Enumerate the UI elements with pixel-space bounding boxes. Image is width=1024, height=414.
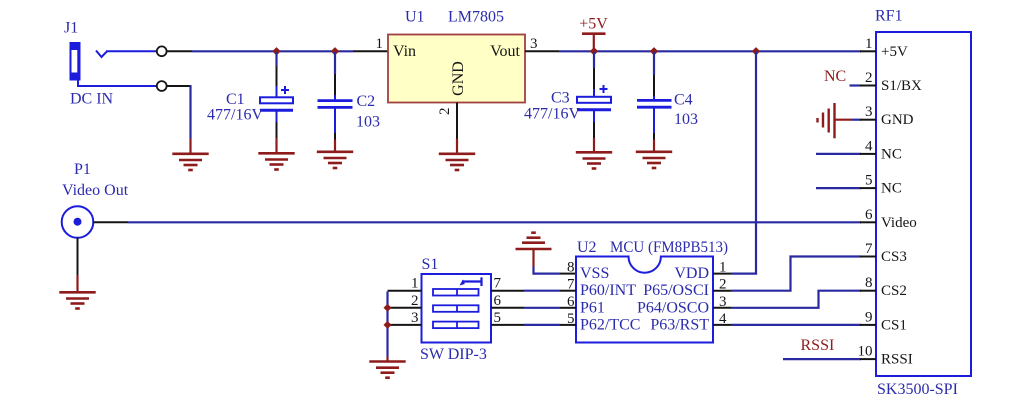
svg-text:C2: C2	[357, 93, 376, 110]
capacitor C4 bottom lead	[653, 108, 655, 133]
wire at RF1 pin 3	[852, 119, 861, 121]
wire: +5V rail	[559, 50, 861, 52]
svg-text:GND: GND	[881, 112, 914, 128]
S1 switch element 1	[433, 289, 479, 296]
svg-text:CS2: CS2	[881, 283, 907, 299]
capacitor C2 top plate	[318, 99, 353, 102]
P1 signal pin stub	[93, 221, 128, 223]
capacitor C3 plus sign	[600, 85, 608, 93]
capacitor C3 negative plate	[577, 108, 611, 111]
svg-text:1: 1	[411, 276, 419, 292]
svg-text:P61: P61	[580, 299, 605, 316]
S1 pin 6 stub	[491, 307, 524, 309]
capacitor C1 bottom lead	[276, 112, 278, 123]
capacitor C1 plus sign	[281, 86, 289, 94]
U2 pin 5 stub	[560, 324, 576, 326]
ground (J1)	[172, 154, 208, 170]
svg-text:6: 6	[494, 293, 502, 309]
svg-text:6: 6	[865, 207, 873, 223]
svg-text:8: 8	[567, 260, 575, 276]
svg-text:Video Out: Video Out	[62, 182, 129, 199]
wire C3 to rail	[593, 52, 595, 68]
capacitor C2 bottom lead	[334, 109, 336, 134]
capacitor C4 bottom plate	[637, 106, 672, 109]
ground (U1)	[439, 154, 475, 170]
ground lead (C2)	[334, 140, 336, 153]
svg-text:S1: S1	[422, 256, 439, 273]
svg-text:P64/OSCO: P64/OSCO	[637, 299, 709, 316]
RF1 pin 9 stub	[860, 324, 876, 326]
U2 pin 7 stub	[560, 290, 576, 292]
capacitor C1 pin 1	[276, 66, 278, 86]
capacitor C3 pin 1	[593, 68, 595, 89]
wire C2 to rail	[334, 52, 336, 74]
capacitor C1 pin 2	[276, 122, 278, 138]
capacitor C2 top lead	[334, 95, 336, 100]
RF1 pin 2 stub	[860, 85, 876, 87]
svg-text:LM7805: LM7805	[448, 9, 504, 26]
svg-text:10: 10	[858, 344, 873, 360]
connector J1 (DC power jack body)	[70, 42, 81, 81]
connector P1 center pin	[74, 218, 82, 226]
S1 pin 2 stub	[388, 307, 422, 309]
svg-text:J1: J1	[64, 20, 78, 37]
svg-text:477/16V: 477/16V	[207, 106, 263, 123]
P1 ground pin stub	[77, 238, 79, 275]
svg-text:1: 1	[376, 36, 384, 52]
wire: Video net	[128, 221, 861, 223]
svg-text:RSSI: RSSI	[881, 352, 913, 368]
wire VDD to +5V rail	[731, 51, 756, 273]
S1 pin 5 stub	[491, 324, 524, 326]
ground (S1)	[369, 362, 405, 378]
RF1 pin 4 stub	[860, 153, 876, 155]
ground (C3)	[576, 152, 612, 168]
J1 bottom pin pad (open circle)	[157, 81, 167, 91]
svg-text:+5V: +5V	[881, 44, 908, 60]
svg-text:103: 103	[674, 111, 698, 128]
U2 pin 1 stub	[713, 273, 731, 275]
ground (RF1 GND pin, rotated)	[818, 103, 835, 138]
svg-text:3: 3	[865, 104, 873, 120]
ground (U2 VSS, inverted)	[516, 233, 552, 249]
ground lead (U2 VSS)	[532, 249, 534, 267]
svg-text:RF1: RF1	[875, 8, 903, 25]
capacitor C3 positive plate	[577, 97, 611, 103]
wire S1 pin6 to U2	[524, 307, 560, 309]
svg-text:P60/INT: P60/INT	[580, 282, 636, 299]
capacitor C4 top plate	[637, 99, 672, 102]
capacitor C4 pin 2	[653, 133, 655, 140]
svg-text:RSSI: RSSI	[801, 337, 835, 354]
svg-text:103: 103	[356, 114, 380, 131]
svg-text:VSS: VSS	[580, 265, 609, 282]
svg-text:5: 5	[494, 310, 502, 326]
svg-text:1: 1	[865, 36, 873, 52]
wire C4 to rail	[653, 52, 655, 75]
U2 pin 3 stub	[713, 307, 731, 309]
svg-text:Vin: Vin	[393, 43, 416, 60]
pin stub U1 pin 1	[353, 50, 389, 52]
svg-text:GND: GND	[450, 61, 467, 96]
ground lead (RF1 GND pin)	[835, 119, 853, 121]
S1 pin 1 stub	[388, 290, 422, 292]
svg-text:8: 8	[865, 275, 873, 291]
svg-text:U2: U2	[577, 239, 597, 256]
ground lead (C4)	[653, 140, 655, 153]
svg-text:NC: NC	[881, 146, 902, 162]
wire S1 pin7 to U2	[524, 290, 560, 292]
svg-text:7: 7	[865, 241, 873, 257]
ground (C2)	[317, 152, 353, 168]
svg-text:CS1: CS1	[881, 317, 907, 333]
wire S1 pin1 to bus	[386, 292, 388, 357]
ground lead (C3)	[593, 138, 595, 153]
svg-text:P62/TCC: P62/TCC	[580, 316, 640, 333]
svg-text:2: 2	[865, 70, 873, 86]
svg-text:CS3: CS3	[881, 249, 907, 265]
svg-text:SK3500-SPI: SK3500-SPI	[877, 381, 958, 398]
ground lead (C1)	[275, 138, 277, 154]
junction node at U2 VDD branch	[752, 47, 760, 55]
junction node at C1	[272, 47, 280, 55]
svg-text:7: 7	[494, 276, 502, 292]
svg-text:2: 2	[437, 108, 453, 116]
svg-text:9: 9	[865, 309, 873, 325]
svg-text:MCU (FM8PB513): MCU (FM8PB513)	[610, 239, 728, 256]
U2 pin 8 stub	[560, 273, 576, 275]
svg-text:3: 3	[530, 36, 538, 52]
J1 tip contact (check mark)	[96, 51, 107, 58]
junction node at C3	[590, 47, 598, 55]
module RF1 body	[876, 32, 971, 376]
wire at RF1 pin 2	[850, 84, 862, 86]
svg-text:4: 4	[719, 311, 727, 327]
capacitor C3 bottom lead	[593, 111, 595, 122]
wire down to ground	[189, 85, 191, 139]
RF1 pin 3 stub	[860, 119, 876, 121]
U1 pin 2 stub	[456, 103, 458, 139]
wire S1 pin5 to U2	[524, 324, 560, 326]
svg-text:+5V: +5V	[579, 16, 608, 33]
wire C1 to rail	[275, 52, 277, 66]
RF1 pin 8 stub	[860, 290, 876, 292]
RF1 pin 1 stub	[860, 50, 876, 52]
wire at RF1 pin 10 (RSSI net)	[783, 358, 861, 360]
capacitor C2 pin 1	[334, 74, 336, 95]
S1 pin 3 stub	[388, 324, 422, 326]
RF1 pin 7 stub	[860, 256, 876, 258]
RF1 pin 5 stub	[860, 187, 876, 189]
svg-text:C3: C3	[551, 90, 570, 107]
svg-text:2: 2	[719, 277, 727, 293]
ground (C4)	[636, 152, 672, 168]
capacitor C1 top lead	[276, 86, 278, 97]
junction node S1 pin3	[384, 321, 392, 329]
junction node at C2	[331, 47, 339, 55]
wire: main input rail	[192, 50, 353, 52]
J1 sleeve lead	[78, 81, 157, 87]
svg-text:U1: U1	[405, 9, 425, 26]
RF1 pin 10 stub	[860, 358, 876, 360]
U2 pin 6 stub	[560, 307, 576, 309]
junction node at C4	[650, 47, 658, 55]
svg-text:3: 3	[719, 294, 727, 310]
wire at RF1 pin 4	[816, 153, 861, 155]
S1 actuator hook arrowhead	[460, 279, 465, 285]
wire P63/RST to RF1 CS1	[731, 324, 861, 326]
wire at RF1 pin 5	[816, 187, 861, 189]
svg-text:DC IN: DC IN	[70, 91, 114, 108]
junction node S1 pin2	[384, 304, 392, 312]
power +5V bar	[582, 32, 606, 35]
svg-text:P1: P1	[74, 161, 91, 178]
capacitor C1 negative plate	[260, 109, 293, 112]
ground lead (J1)	[189, 139, 191, 155]
svg-text:P65/OSCI: P65/OSCI	[643, 282, 709, 299]
S1 pin 7 stub	[491, 290, 524, 292]
svg-text:Vout: Vout	[490, 43, 520, 60]
svg-text:SW DIP-3: SW DIP-3	[420, 346, 487, 363]
capacitor C4 top lead	[653, 96, 655, 100]
wire J1 tip to pad	[106, 50, 157, 52]
svg-text:VDD: VDD	[674, 265, 709, 282]
regulator U1 body	[388, 35, 525, 103]
S1 actuator hook	[462, 277, 482, 286]
ground (P1)	[59, 292, 95, 308]
wire P65/OSCI to RF1 CS3	[731, 257, 861, 291]
switch S1 body	[422, 274, 492, 343]
svg-text:2: 2	[411, 293, 419, 309]
svg-text:C4: C4	[674, 92, 693, 109]
U1 pin 3 stub	[525, 50, 559, 52]
ground lead (S1)	[386, 357, 388, 363]
svg-text:Video: Video	[881, 215, 917, 231]
svg-text:1: 1	[719, 260, 727, 276]
svg-text:4: 4	[865, 138, 873, 154]
S1 switch element 2	[433, 305, 479, 312]
pin stub from pad	[167, 50, 192, 52]
pin stub from bottom pad	[167, 85, 192, 87]
S1 switch element 3	[433, 322, 479, 329]
ground (C1)	[258, 153, 294, 169]
capacitor C3 top lead	[593, 89, 595, 97]
svg-text:5: 5	[865, 173, 873, 189]
svg-text:NC: NC	[881, 181, 902, 197]
svg-text:3: 3	[411, 310, 419, 326]
J1 top pin pad (open circle)	[157, 46, 167, 56]
capacitor C4 pin 1	[653, 75, 655, 96]
svg-text:S1/BX: S1/BX	[881, 78, 922, 94]
capacitor C2 pin 2	[334, 133, 336, 140]
MCU U2 body with notch	[576, 257, 713, 343]
ground lead (U1)	[456, 139, 458, 155]
svg-text:P63/RST: P63/RST	[650, 316, 709, 333]
connector P1 body (RCA jack)	[62, 206, 94, 238]
U2 pin 2 stub	[713, 290, 731, 292]
capacitor C1 positive plate	[260, 97, 293, 103]
capacitor C2 bottom plate	[318, 106, 353, 109]
power +5V lead	[593, 35, 595, 51]
U2 pin 4 stub	[713, 324, 731, 326]
RF1 pin 6 stub	[860, 221, 876, 223]
svg-text:477/16V: 477/16V	[524, 106, 580, 123]
capacitor C3 pin 2	[593, 122, 595, 138]
ground lead (P1)	[76, 275, 78, 293]
wire P64/OSCO to RF1 CS2	[731, 291, 861, 308]
wire VSS to ground	[534, 267, 561, 274]
svg-text:NC: NC	[824, 68, 846, 85]
